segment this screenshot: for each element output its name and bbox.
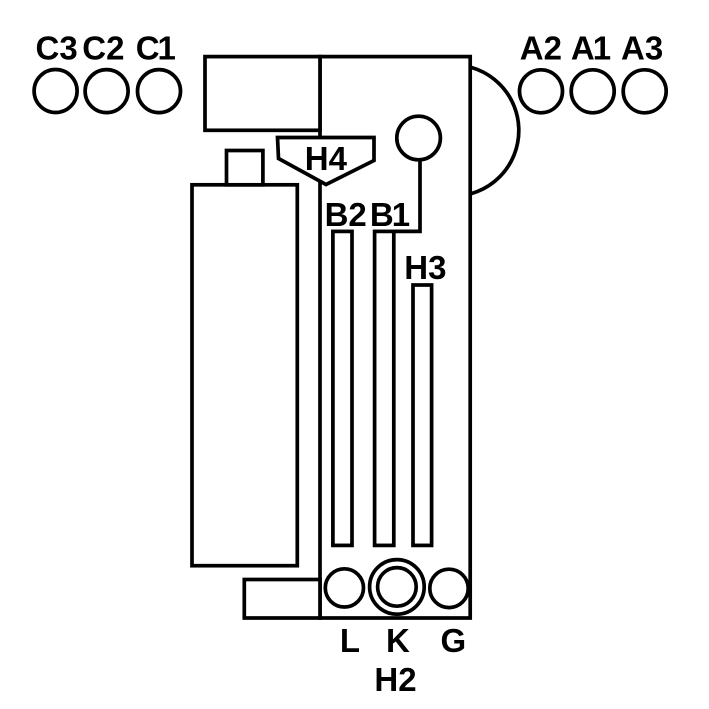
svg-text:G: G [440,622,466,659]
svg-text:K: K [386,622,410,659]
svg-text:B2: B2 [325,196,367,233]
svg-text:A1: A1 [571,29,611,66]
svg-text:L: L [340,622,360,659]
svg-text:C2: C2 [82,29,124,66]
svg-text:H2: H2 [374,661,416,698]
svg-text:A2: A2 [520,29,562,66]
svg-text:C3: C3 [36,29,78,66]
svg-text:H4: H4 [305,140,348,177]
svg-text:B1: B1 [370,196,410,233]
svg-text:H3: H3 [404,249,446,286]
svg-text:C1: C1 [136,29,176,66]
svg-text:A3: A3 [621,29,663,66]
